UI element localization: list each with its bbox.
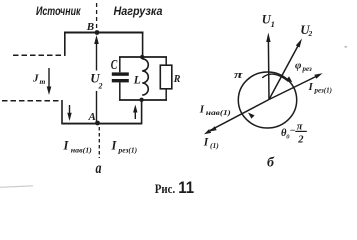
svg-text:нав(1): нав(1) <box>206 109 231 117</box>
current arrow Inav down <box>69 105 71 114</box>
svg-text:I: I <box>308 81 314 93</box>
svg-text:φ: φ <box>295 60 302 72</box>
svg-text:б: б <box>267 154 275 169</box>
svg-text:нав(1): нав(1) <box>71 145 93 154</box>
svg-text:−: − <box>290 126 296 137</box>
wire load bottom rail <box>119 99 167 101</box>
scan artifact speck <box>345 46 348 48</box>
svg-text:Нагрузка: Нагрузка <box>114 6 164 18</box>
vector Irez1 <box>269 76 317 100</box>
svg-text:Рис.: Рис. <box>155 182 175 196</box>
wire source dashed top <box>13 54 66 56</box>
svg-text:2: 2 <box>297 135 304 146</box>
svg-text:(1): (1) <box>210 141 219 150</box>
inductor L <box>142 59 148 95</box>
svg-text:J: J <box>32 73 39 85</box>
svg-text:а: а <box>96 160 102 177</box>
svg-text:C: C <box>111 58 118 73</box>
resistor R <box>165 57 167 65</box>
svg-text:2: 2 <box>308 29 313 38</box>
current source Jm arrow <box>48 68 50 88</box>
angle circle <box>238 72 296 128</box>
node A <box>95 121 100 126</box>
vector U2 <box>269 44 299 100</box>
wire bottom rail A <box>62 123 143 125</box>
svg-text:I: I <box>111 139 118 153</box>
svg-text:рез(1): рез(1) <box>314 87 332 95</box>
svg-text:I: I <box>199 104 205 116</box>
svg-text:I: I <box>203 137 209 149</box>
capacitor C <box>119 57 121 72</box>
node load bottom junction <box>139 98 143 102</box>
wire source top vertical <box>64 32 66 56</box>
wire load top connector <box>142 32 144 57</box>
svg-text:A: A <box>88 111 96 123</box>
vector U1 <box>267 41 270 100</box>
wire source dashed bottom <box>2 100 62 102</box>
svg-text:рез(1): рез(1) <box>118 146 138 155</box>
svg-text:I: I <box>63 139 70 153</box>
voltage arrow U2 <box>96 39 98 71</box>
svg-text:π: π <box>234 70 243 81</box>
svg-text:R: R <box>173 74 181 85</box>
svg-text:2: 2 <box>98 82 103 91</box>
svg-text:Источник: Источник <box>36 6 81 18</box>
scan artifact streak <box>0 186 33 188</box>
wire source bottom vertical <box>61 100 63 124</box>
wire load top rail <box>119 56 167 58</box>
boundary dashed separator top <box>96 3 98 30</box>
node B <box>95 30 100 35</box>
boundary dashed separator bottom <box>98 127 100 158</box>
angle circle arrowhead <box>248 113 255 119</box>
svg-text:рез: рез <box>302 65 313 73</box>
wire load bottom connector <box>141 100 143 124</box>
node load top junction <box>140 55 144 59</box>
svg-text:1: 1 <box>271 19 275 29</box>
wire top rail B <box>64 32 144 34</box>
current arrow Irez up <box>134 110 136 119</box>
angle arc phi <box>262 74 288 81</box>
svg-text:B: B <box>86 21 94 33</box>
svg-text:L: L <box>133 75 141 87</box>
svg-text:m: m <box>40 77 46 86</box>
vector Inav1 <box>210 100 269 131</box>
svg-text:11: 11 <box>178 179 194 197</box>
